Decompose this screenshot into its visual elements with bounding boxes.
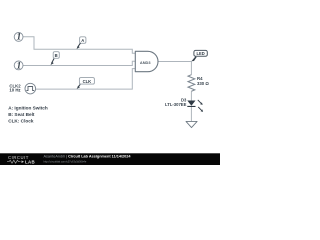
svg-text:10 Hz: 10 Hz [9,87,20,92]
svg-text:B: Seat Belt: B: Seat Belt [8,112,35,117]
svg-text:B: B [55,53,58,58]
svg-text:LAB: LAB [25,159,35,164]
svg-text:http://circuitlab.com/c57c63c5: http://circuitlab.com/c57c63c5d56b4e [44,159,87,163]
wire V2 to gate input B [23,61,136,65]
footer bar [0,153,220,165]
ground [186,121,197,127]
wire resistor to LED [190,91,192,100]
svg-text:CLK: CLK [83,79,92,84]
logic-1 source V2 [14,61,23,71]
clock source CLK2 [25,83,36,94]
op: AND gate AND3 [135,51,158,71]
svg-text:330 Ω: 330 Ω [197,81,209,86]
logic-1 source V1 [14,33,23,43]
node flag LED [191,50,207,61]
svg-text:1: 1 [17,33,22,43]
node flag A [76,37,86,49]
wire LED to ground [190,107,192,122]
svg-text:1: 1 [17,61,22,71]
LED D3 [165,97,203,112]
wire V1 to gate input A [23,37,136,54]
wire gate output to resistor [158,62,191,75]
svg-text:A: A [81,38,84,43]
wire CLK2 to gate input C [35,69,135,90]
svg-text:LED: LED [197,51,205,56]
resistor R4 [188,75,209,92]
svg-text:AsanteAndrii | Circuit Lab Ass: AsanteAndrii | Circuit Lab Assignment 11… [44,155,132,159]
svg-text:CLK: Clock: CLK: Clock [8,118,34,123]
svg-text:AND3: AND3 [140,60,151,65]
CircuitLab logo wordmark [7,155,35,164]
node flag CLK [77,78,95,89]
svg-text:LTL-307EE: LTL-307EE [165,102,187,107]
node flag B [50,52,59,65]
svg-text:A: Ignition Switch: A: Ignition Switch [8,105,48,110]
